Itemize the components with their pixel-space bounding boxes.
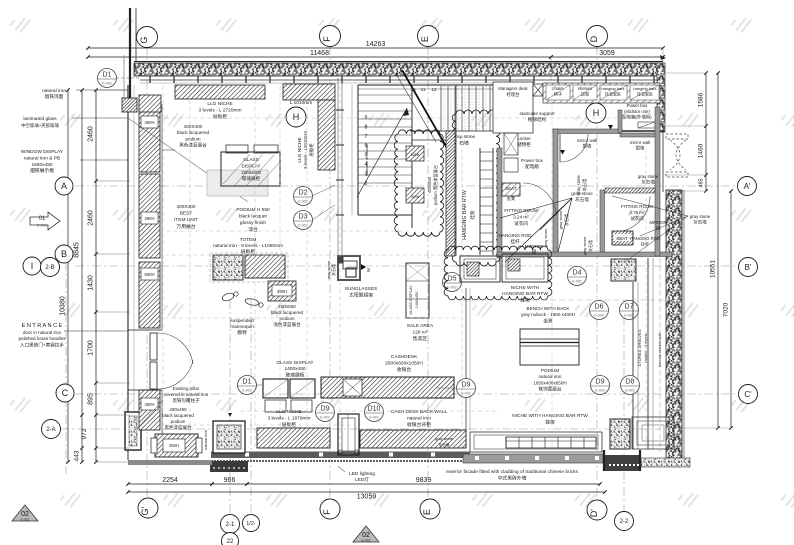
- door arc fitting room 2: [614, 196, 650, 232]
- svg-text:443: 443: [74, 450, 81, 461]
- svg-text:配电箱: 配电箱: [525, 163, 539, 170]
- svg-text:10551: 10551: [710, 260, 717, 278]
- svg-text:储物柜: 储物柜: [517, 141, 531, 148]
- svg-text:浅色漆蓝展台: 浅色漆蓝展台: [273, 321, 301, 328]
- right shelves lines: [632, 282, 634, 449]
- bottom-left wall corner: [125, 412, 141, 450]
- svg-text:E-002: E-002: [20, 518, 29, 522]
- wall above (off-canvas continuation): [129, 8, 131, 102]
- svg-text:中式黑砖外墙: 中式黑砖外墙: [498, 474, 527, 481]
- top exterior wall: [134, 61, 663, 63]
- niche side walls: [465, 288, 467, 430]
- bottom wall dark band: [211, 452, 470, 459]
- niche fixtures above bench: [460, 256, 500, 282]
- marker 02 left: [12, 505, 38, 522]
- svg-text:配电箱(外墙用): 配电箱(外墙用): [622, 114, 652, 121]
- svg-text:BENCH WITH BACK: BENCH WITH BACK: [527, 306, 571, 311]
- bubbles D9 D8 bottom-right: [591, 376, 610, 395]
- grid lines: [146, 46, 148, 500]
- svg-text:D3: D3: [299, 214, 308, 221]
- svg-text:PODIUM H 550: PODIUM H 550: [236, 207, 270, 213]
- svg-text:gray stone: gray stone: [576, 175, 581, 195]
- svg-text:3 levels - L 1979mm: 3 levels - L 1979mm: [267, 416, 310, 422]
- 380H podium: [268, 281, 296, 301]
- svg-text:D9: D9: [462, 382, 471, 389]
- svg-text:货架: 货架: [581, 91, 589, 98]
- svg-text:太阳眼镜架: 太阳眼镜架: [349, 292, 373, 299]
- svg-text:MIRROR: MIRROR: [650, 220, 667, 225]
- grid bubble B: [55, 245, 73, 263]
- svg-text:400X400: 400X400: [176, 204, 196, 210]
- svg-text:D8: D8: [626, 379, 635, 386]
- svg-text:E-002: E-002: [369, 416, 379, 420]
- svg-text:3059: 3059: [599, 50, 615, 57]
- grid bubble C': [739, 385, 758, 404]
- glass display 1800x800: [207, 170, 268, 196]
- grid bubble A': [738, 177, 757, 196]
- fitting room 2 seat: [612, 231, 633, 245]
- svg-text:挂架: 挂架: [469, 210, 476, 220]
- svg-text:玻璃展柜: 玻璃展柜: [242, 175, 261, 182]
- pillar base dark block: [210, 461, 248, 472]
- svg-text:128 m²: 128 m²: [413, 329, 428, 335]
- svg-text:D9: D9: [321, 406, 330, 413]
- podium in cloud 1: [406, 146, 424, 161]
- svg-text:black lacquer: black lacquer: [239, 214, 268, 220]
- svg-text:D4: D4: [573, 270, 582, 277]
- svg-text:C': C': [744, 390, 752, 399]
- grid bubble D: [587, 26, 608, 47]
- svg-text:ITEM UNIT: ITEM UNIT: [174, 217, 198, 223]
- svg-text:E-002: E-002: [624, 314, 634, 318]
- svg-text:层板柜: 层板柜: [308, 143, 315, 157]
- entrance doors: [128, 329, 162, 331]
- svg-text:Power box: Power box: [521, 158, 543, 163]
- svg-text:2-A: 2-A: [46, 427, 55, 433]
- svg-text:经理台: 经理台: [507, 91, 520, 98]
- grid bubble E: [418, 26, 439, 47]
- svg-text:TOTEM: TOTEM: [240, 237, 257, 243]
- svg-text:楼梯结构: 楼梯结构: [528, 116, 547, 123]
- svg-text:2-1: 2-1: [226, 522, 235, 528]
- svg-text:gray stone: gray stone: [690, 214, 711, 219]
- svg-text:1/2-: 1/2-: [246, 521, 256, 527]
- svg-text:GLASS DISPLAY: GLASS DISPLAY: [409, 285, 413, 315]
- svg-text:hanging bars: hanging bars: [633, 86, 656, 91]
- svg-text:E-002: E-002: [594, 314, 604, 318]
- svg-text:staircase support: staircase support: [520, 111, 556, 116]
- bottom-right dark mat: [604, 455, 641, 471]
- svg-text:FITTING ROOM: FITTING ROOM: [504, 208, 538, 213]
- svg-text:22: 22: [227, 539, 234, 545]
- svg-text:gray stone: gray stone: [638, 174, 659, 179]
- svg-text:D': D': [589, 509, 599, 517]
- svg-text:9: 9: [365, 115, 368, 121]
- svg-text:灰石墙: 灰石墙: [330, 264, 336, 276]
- svg-text:C: C: [62, 388, 69, 398]
- tall glass display: [406, 263, 429, 318]
- llg niche L-shape: [283, 84, 335, 100]
- svg-text:1650x400x650H: 1650x400x650H: [533, 380, 566, 385]
- stair base walls: [338, 414, 359, 455]
- svg-text:A: A: [61, 181, 67, 191]
- svg-text:石墙: 石墙: [459, 140, 469, 147]
- pillar: [213, 421, 245, 453]
- dimension 3059: [551, 56, 663, 58]
- left shopfront wall: [127, 85, 129, 452]
- svg-text:B: B: [61, 249, 67, 259]
- grid bubble 2-B: [41, 258, 60, 277]
- svg-text:SEAT: SEAT: [505, 186, 517, 191]
- svg-text:260H: 260H: [144, 216, 154, 221]
- svg-text:1400x450: 1400x450: [284, 366, 305, 372]
- left dimension chain: [95, 90, 97, 462]
- svg-text:natural iron & PB: natural iron & PB: [24, 155, 60, 161]
- svg-text:收银台背柜: 收银台背柜: [407, 421, 431, 428]
- svg-text:E-002: E-002: [298, 200, 308, 204]
- stair break line: [402, 70, 447, 148]
- svg-text:podium: podium: [279, 316, 294, 321]
- svg-text:D1: D1: [243, 379, 252, 386]
- svg-text:NICHE WITH: NICHE WITH: [511, 285, 540, 291]
- svg-text:灰石墙: 灰石墙: [587, 240, 593, 252]
- svg-text:350H: 350H: [169, 443, 179, 448]
- svg-text:E: E: [422, 509, 432, 515]
- svg-text:A': A': [744, 182, 751, 191]
- svg-text:11468: 11468: [310, 50, 329, 57]
- svg-text:300H: 300H: [411, 153, 420, 157]
- revision cloud 2: [452, 110, 499, 266]
- svg-text:mirror wall: mirror wall: [577, 138, 597, 143]
- svg-text:E-002: E-002: [361, 539, 370, 543]
- svg-text:E-002: E-002: [102, 82, 112, 86]
- bubble 2-2: [615, 512, 634, 531]
- fixture bubble H left: [286, 107, 306, 127]
- svg-text:E N T R A N C E: E N T R A N C E: [22, 323, 63, 329]
- svg-text:灰石墙: 灰石墙: [693, 219, 707, 226]
- svg-text:Power box: Power box: [627, 103, 649, 108]
- svg-text:8845: 8845: [74, 242, 81, 258]
- LED dotted strip: [211, 460, 213, 462]
- svg-text:灰石墙: 灰石墙: [575, 196, 589, 203]
- svg-text:mannequin: mannequin: [230, 324, 254, 330]
- svg-text:gray stone: gray stone: [543, 228, 548, 247]
- svg-text:灰石墙: 灰石墙: [563, 214, 569, 226]
- svg-text:银墙: 银墙: [636, 145, 645, 152]
- svg-text:300H: 300H: [144, 402, 154, 407]
- svg-text:glossy finish: glossy finish: [240, 220, 266, 226]
- bottom hatch fixtures: [257, 428, 330, 448]
- svg-text:exterior facade fitted with cl: exterior facade fitted with cladding of …: [446, 469, 578, 475]
- svg-text:E-002: E-002: [242, 389, 252, 393]
- svg-text:D6: D6: [595, 304, 604, 311]
- svg-text:GLASS: GLASS: [243, 157, 258, 162]
- svg-text:E-001: E-001: [37, 223, 48, 228]
- svg-text:Existing pillar: Existing pillar: [173, 386, 200, 391]
- svg-text:E-002: E-002: [320, 416, 330, 420]
- window display fixtures: [139, 104, 160, 172]
- svg-text:E-002: E-002: [625, 389, 635, 393]
- svg-text:NICHE WITH HANGING BAR RTW: NICHE WITH HANGING BAR RTW: [512, 413, 588, 419]
- svg-text:7: 7: [365, 134, 368, 140]
- svg-text:挂杆: 挂杆: [510, 238, 520, 245]
- bubbles D9 D10 bottom: [316, 403, 335, 422]
- suspended mannequin: [221, 292, 263, 307]
- fitting room 1 seat: [502, 183, 520, 196]
- svg-text:2460: 2460: [88, 126, 95, 142]
- triangle marker 02: [353, 526, 379, 543]
- svg-text:01: 01: [39, 216, 46, 222]
- grid bubble B': [739, 258, 758, 277]
- svg-text:door in natural iron: door in natural iron: [23, 330, 62, 335]
- stair up line: [357, 108, 407, 197]
- svg-text:D2: D2: [299, 190, 308, 197]
- svg-text:黑色漆蓝展台: 黑色漆蓝展台: [179, 142, 207, 149]
- svg-text:E-002: E-002: [572, 280, 582, 284]
- svg-text:2: 2: [365, 181, 368, 187]
- bubble D9 right: [457, 379, 476, 398]
- svg-text:895: 895: [88, 393, 95, 405]
- svg-text:DISPLAY: DISPLAY: [241, 163, 260, 168]
- llg niche top hatch: [175, 85, 265, 99]
- grid bubble A: [55, 177, 73, 195]
- svg-text:烟铁饰面: 烟铁饰面: [45, 93, 64, 100]
- svg-text:1400x450: 1400x450: [415, 292, 419, 309]
- svg-text:gray stone: gray stone: [435, 437, 453, 441]
- svg-text:9839: 9839: [416, 477, 432, 484]
- M markers: [608, 125, 613, 130]
- grid bubble C: [56, 384, 74, 402]
- svg-text:H: H: [593, 108, 600, 118]
- svg-text:2-B: 2-B: [45, 265, 54, 271]
- svg-text:层板柜: 层板柜: [241, 248, 256, 255]
- svg-text:chairs: chairs: [552, 86, 563, 91]
- grid bubble F: [320, 26, 341, 47]
- grid bubble D3: [294, 211, 313, 230]
- bottom facade band right: [463, 454, 603, 463]
- svg-text:E-002: E-002: [461, 392, 471, 396]
- svg-text:10380: 10380: [60, 296, 67, 316]
- svg-text:300H: 300H: [411, 195, 420, 199]
- grid bubble D2: [294, 187, 313, 206]
- svg-text:黑铁包覆柱子: 黑铁包覆柱子: [173, 397, 200, 404]
- bottom dims: [128, 483, 212, 485]
- section arrow 01: [30, 212, 60, 230]
- svg-text:PODIUM: PODIUM: [541, 368, 560, 373]
- svg-text:laminated glass: laminated glass: [23, 116, 57, 122]
- svg-text:E: E: [420, 36, 430, 42]
- svg-text:380H: 380H: [277, 289, 287, 294]
- shopfront glazing lines: [337, 78, 339, 256]
- svg-text:500H: 500H: [144, 272, 154, 277]
- svg-text:D7: D7: [625, 304, 634, 311]
- svg-text:HANGING BAR RTW: HANGING BAR RTW: [462, 190, 468, 240]
- svg-text:层板柜: 层板柜: [213, 113, 228, 120]
- svg-text:I: I: [31, 261, 34, 271]
- grid bubble G: [137, 27, 158, 48]
- svg-text:CASH DESK BACK WALL: CASH DESK BACK WALL: [391, 409, 448, 415]
- svg-text:13059: 13059: [357, 494, 377, 501]
- svg-text:natural iron - 6 levels - L106: natural iron - 6 levels - L1060mm: [213, 243, 283, 249]
- svg-text:模特: 模特: [237, 329, 247, 336]
- svg-text:3.24 m²: 3.24 m²: [513, 214, 529, 219]
- svg-text:suspended: suspended: [230, 318, 254, 324]
- svg-text:试衣间: 试衣间: [630, 215, 643, 222]
- bottom grid bubbles: [138, 498, 158, 518]
- gray stone piers bottom-right: [610, 419, 630, 449]
- interior dashed guides: [162, 86, 164, 450]
- bubble D1 cash: [238, 376, 257, 395]
- svg-text:售卖区: 售卖区: [413, 335, 428, 342]
- svg-text:black lacquered: black lacquered: [162, 413, 194, 418]
- right exterior wall (breccia marble): [657, 63, 665, 132]
- svg-text:F: F: [322, 36, 332, 42]
- dimension 11468: [88, 56, 551, 58]
- bottom-right corner speckle strip: [641, 458, 690, 467]
- svg-text:3 levels - L 2720mm: 3 levels - L 2720mm: [198, 108, 241, 114]
- svg-text:灰石墙: 灰石墙: [641, 179, 655, 186]
- svg-text:400X400: 400X400: [184, 124, 203, 129]
- svg-text:H: H: [293, 112, 300, 122]
- svg-text:966: 966: [224, 477, 236, 484]
- svg-text:L 1010mm: L 1010mm: [290, 100, 313, 106]
- niche with bench bottom-right: [470, 432, 602, 452]
- staircase: [357, 85, 359, 215]
- fitting room walls: [497, 148, 502, 258]
- svg-text:D9: D9: [596, 379, 605, 386]
- svg-text:玻璃展柜: 玻璃展柜: [285, 371, 304, 378]
- svg-text:2254: 2254: [162, 477, 178, 484]
- svg-text:hanging bars: hanging bars: [601, 86, 624, 91]
- svg-text:1586: 1586: [698, 92, 705, 107]
- svg-text:坐凳: 坐凳: [507, 195, 516, 202]
- svg-text:HANGING ROD: HANGING ROD: [630, 236, 660, 241]
- svg-text:D5: D5: [448, 276, 457, 283]
- svg-text:1460: 1460: [698, 143, 705, 158]
- bubble 1/2: [243, 515, 260, 532]
- svg-text:挂架: 挂架: [545, 419, 555, 426]
- right dimension chain: [705, 73, 707, 191]
- svg-text:SALE AREA: SALE AREA: [407, 323, 434, 329]
- svg-text:B': B': [745, 263, 752, 272]
- managers desk area: [493, 82, 533, 133]
- svg-text:2.75 m²: 2.75 m²: [630, 210, 645, 215]
- corner fixture: [122, 98, 137, 112]
- svg-text:F: F: [322, 509, 332, 515]
- svg-text:D: D: [589, 35, 599, 42]
- shelf ladder: [479, 148, 481, 255]
- svg-text:中空玻璃+夹胶玻璃: 中空玻璃+夹胶玻璃: [21, 122, 59, 129]
- gray stone wall right of stair: [446, 131, 455, 256]
- svg-text:natural iron: natural iron: [407, 416, 431, 422]
- svg-text:972: 972: [81, 428, 88, 439]
- svg-text:400x450: 400x450: [169, 407, 187, 412]
- svg-text:400x550: 400x550: [427, 176, 432, 193]
- svg-text:银墙: 银墙: [583, 143, 592, 150]
- bubble 2-1: [221, 515, 240, 534]
- svg-text:covered in natural iron: covered in natural iron: [164, 392, 209, 397]
- svg-text:7020: 7020: [723, 302, 730, 317]
- svg-text:black lacquered: black lacquered: [271, 310, 304, 315]
- svg-text:3 levels - L2010mm: 3 levels - L2010mm: [303, 131, 308, 170]
- stair upper structure: [358, 84, 493, 86]
- bubbles D6 D7: [590, 301, 609, 320]
- corridor door arc: [560, 134, 588, 162]
- svg-text:LED lighting: LED lighting: [349, 471, 375, 477]
- svg-text:staircase in natural: staircase in natural: [365, 144, 369, 176]
- svg-text:natural iron: natural iron: [203, 430, 208, 450]
- svg-text:shelves: shelves: [578, 86, 592, 91]
- svg-text:灰石墙: 灰石墙: [581, 179, 588, 192]
- svg-text:SUNGLASSES: SUNGLASSES: [345, 286, 378, 292]
- svg-text:2500x600x1050H: 2500x600x1050H: [385, 361, 423, 367]
- svg-text:breccia marble wall: breccia marble wall: [657, 333, 662, 367]
- svg-text:试衣间: 试衣间: [514, 220, 528, 227]
- svg-text:2460: 2460: [88, 210, 95, 226]
- svg-text:灰石墙: 灰石墙: [439, 442, 450, 447]
- svg-text:层板柜: 层板柜: [282, 421, 297, 428]
- svg-text:FITTING ROOM: FITTING ROOM: [621, 204, 653, 209]
- svg-text:SEAT: SEAT: [616, 236, 627, 241]
- svg-text:M: M: [366, 268, 371, 272]
- bubble D5: [443, 273, 462, 292]
- bubble D4: [568, 267, 587, 286]
- svg-text:1700: 1700: [88, 340, 95, 356]
- svg-text:CASHDESK: CASHDESK: [391, 354, 418, 360]
- svg-text:2-2: 2-2: [620, 519, 629, 525]
- svg-text:485: 485: [699, 178, 705, 187]
- svg-text:挂衣架区: 挂衣架区: [637, 90, 653, 96]
- svg-text:坐凳: 坐凳: [543, 317, 553, 324]
- svg-text:mirror wall: mirror wall: [630, 140, 650, 145]
- svg-text:LED灯: LED灯: [355, 476, 369, 483]
- svg-text:400x550: 400x550: [278, 304, 296, 309]
- sunglasses display: [338, 256, 360, 280]
- svg-text:gray stone: gray stone: [558, 210, 563, 229]
- svg-text:挂衣架区: 挂衣架区: [605, 90, 621, 96]
- svg-text:椅子: 椅子: [554, 91, 562, 97]
- svg-text:black lacquered: black lacquered: [177, 130, 210, 135]
- grid bubble I: [23, 257, 41, 275]
- svg-text:11: 11: [421, 87, 426, 92]
- svg-text:WINDOW DISPLAY: WINDOW DISPLAY: [21, 149, 64, 155]
- svg-text:挂杆: 挂杆: [641, 241, 650, 248]
- svg-text:G': G': [140, 507, 150, 516]
- svg-text:1800x800: 1800x800: [241, 170, 262, 175]
- svg-text:Managers desk: Managers desk: [498, 86, 528, 91]
- svg-text:podium 黑色漆蓝展台: podium 黑色漆蓝展台: [432, 165, 439, 205]
- bench lockers bottom-right: [506, 437, 596, 448]
- svg-text:收银台: 收银台: [397, 366, 412, 373]
- svg-text:万用展台: 万用展台: [176, 223, 195, 230]
- svg-text:(ebdstor use): (ebdstor use): [624, 109, 650, 114]
- svg-text:Locker: Locker: [517, 136, 531, 141]
- svg-text:E-002: E-002: [298, 224, 308, 228]
- svg-text:natural iron: natural iron: [539, 374, 562, 379]
- svg-text:polished brass handles: polished brass handles: [19, 336, 67, 341]
- fixture bubble H right: [586, 103, 606, 123]
- svg-text:烟铁展示框: 烟铁展示框: [30, 167, 54, 174]
- svg-text:HANGING ROD: HANGING ROD: [499, 233, 533, 238]
- gray stone pier below fitting rooms: [611, 259, 636, 281]
- svg-text:E-002: E-002: [595, 389, 605, 393]
- svg-text:12: 12: [431, 87, 437, 92]
- svg-text:铁饰面展台: 铁饰面展台: [539, 386, 562, 393]
- svg-text:D10: D10: [368, 406, 381, 413]
- svg-text:漆台: 漆台: [248, 226, 258, 233]
- grid bubble D1: [98, 69, 117, 88]
- svg-text:350H: 350H: [144, 120, 154, 125]
